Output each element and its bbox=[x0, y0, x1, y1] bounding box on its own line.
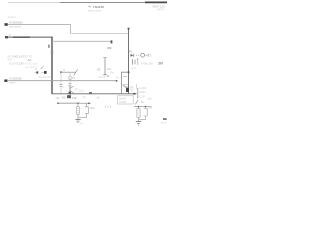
capacitor C9 bars on x70 bbox=[68, 84, 71, 86]
marks right of lamp bbox=[146, 54, 152, 57]
note text block left row3 bbox=[9, 61, 38, 65]
svg-text:b: b bbox=[63, 87, 65, 89]
svg-text:Rb: Rb bbox=[111, 72, 115, 75]
wire main horizontal y93.5 bbox=[52, 93, 136, 95]
connector arrow cluster A end bbox=[88, 102, 91, 104]
mark diagonal small bbox=[35, 68, 37, 70]
svg-text:+|: +| bbox=[97, 95, 100, 99]
svg-text:0.1R: 0.1R bbox=[140, 95, 145, 98]
connector arrow main line end bbox=[134, 93, 137, 95]
svg-text:gnd: gnd bbox=[132, 67, 137, 70]
wire net A horizontal y33.5 bbox=[71, 33, 129, 35]
svg-text:from panel: from panel bbox=[9, 26, 21, 29]
node dot B1 bbox=[138, 106, 140, 108]
svg-text:rev A: rev A bbox=[161, 121, 167, 124]
resistor R7 vertical x78 bbox=[77, 103, 80, 119]
wire pot wiper leg down bbox=[69, 72, 71, 86]
lamp M1 circle bbox=[141, 53, 145, 57]
ground GND1 bbox=[75, 119, 82, 125]
svg-text:10k: 10k bbox=[107, 67, 112, 71]
node dot net C end bbox=[116, 80, 118, 82]
capacitor C4 marks x122-128 bbox=[123, 76, 128, 86]
connector J4 top-right bus end bbox=[145, 1, 167, 3]
node dot under R5 bbox=[107, 76, 108, 77]
note text block left row2 bbox=[8, 58, 32, 63]
potentiometer R2 wiper arrow bbox=[74, 69, 78, 75]
mark diagonal near note bbox=[41, 66, 44, 69]
wire net B horizontal y37 bbox=[6, 36, 52, 38]
resistor R8 vertical x138.5 bbox=[137, 107, 140, 122]
svg-text:1N4148: 1N4148 bbox=[93, 5, 104, 9]
svg-text:ref: ref bbox=[8, 34, 11, 37]
svg-text:4x: 4x bbox=[88, 5, 92, 9]
svg-text:to ch2: to ch2 bbox=[140, 87, 147, 90]
node dot B2 bbox=[145, 106, 147, 108]
connector bar x137.5 bbox=[137, 88, 139, 99]
wire cluster B horizontal y106.5 bbox=[134, 106, 152, 108]
connector J2 arrow left bbox=[5, 36, 8, 38]
wire top power bus bbox=[8, 2, 167, 4]
svg-text:1k: 1k bbox=[83, 96, 86, 99]
svg-text:clip: clip bbox=[148, 98, 152, 101]
svg-text:sheet 1: sheet 1 bbox=[8, 15, 17, 19]
wire main vertical bus x52 bbox=[51, 37, 53, 94]
svg-text:ADJUST: ADJUST bbox=[15, 54, 26, 58]
meter M2 circle small bbox=[68, 76, 72, 80]
svg-text:hs: hs bbox=[141, 101, 144, 104]
label rows right of connector bbox=[140, 87, 147, 98]
ground GND2 bbox=[136, 122, 141, 125]
svg-text:+: + bbox=[137, 57, 139, 61]
svg-text:SET: SET bbox=[8, 58, 13, 62]
connector J3 arrow left bbox=[4, 80, 7, 82]
svg-text:4700u 25V: 4700u 25V bbox=[141, 63, 153, 66]
node dot A2 bbox=[77, 102, 79, 104]
svg-text:IN SENSE-: IN SENSE- bbox=[9, 77, 23, 81]
potentiometer R2 body wire bbox=[61, 71, 76, 73]
label T tick bbox=[48, 45, 49, 48]
svg-text:2k2: 2k2 bbox=[56, 97, 61, 100]
capacitor C6 vertical x86.5 bbox=[78, 103, 88, 117]
svg-text:1% mf: 1% mf bbox=[98, 76, 105, 79]
svg-text:Q2: Q2 bbox=[130, 89, 134, 92]
capacitor C7 vertical x145.5 bbox=[139, 107, 147, 120]
svg-text:supply: supply bbox=[157, 8, 165, 11]
svg-text:series drop: series drop bbox=[88, 8, 101, 12]
note text block left row1 bbox=[8, 54, 33, 58]
node tick on bus x52 bbox=[51, 52, 53, 54]
svg-text:10u: 10u bbox=[148, 107, 153, 110]
svg-text:D1 D2 sel: D1 D2 sel bbox=[39, 75, 51, 79]
node junction x128.5 y72 bbox=[128, 71, 130, 73]
svg-text:BD: BD bbox=[62, 95, 66, 99]
svg-text:3M: 3M bbox=[158, 61, 163, 65]
svg-text:TO220: TO220 bbox=[119, 101, 127, 104]
node junction Q1 emitter bbox=[69, 93, 71, 95]
transistor Q1 bbox=[69, 86, 74, 94]
svg-text:F1: F1 bbox=[129, 50, 133, 54]
mark diagonal right of box bbox=[135, 100, 138, 105]
svg-text:Q1: Q1 bbox=[75, 88, 79, 91]
svg-text:at 25C amb: at 25C amb bbox=[25, 62, 38, 65]
resistor R5 vertical x105 bbox=[103, 58, 107, 75]
capacitor C8 bars on x61 bbox=[59, 85, 62, 87]
wire net A corner down x70.5 bbox=[70, 25, 72, 34]
svg-text:return: return bbox=[9, 82, 16, 85]
svg-text:4: 4 bbox=[81, 122, 83, 125]
svg-text:IN SENSE+: IN SENSE+ bbox=[9, 21, 24, 25]
potentiometer R2 node dot bbox=[60, 71, 62, 73]
wire branch y41 bbox=[52, 40, 112, 42]
connector end hook y41 bbox=[111, 40, 113, 43]
wire net A horizontal y24.5 bbox=[8, 24, 71, 26]
svg-text:1 1 1: 1 1 1 bbox=[105, 105, 112, 109]
transistor Q2 bbox=[123, 84, 134, 92]
wire stub above connector bbox=[136, 84, 138, 89]
wire corner to x121.5 bbox=[122, 72, 129, 94]
svg-text:R2: R2 bbox=[72, 77, 76, 80]
svg-text:5k: 5k bbox=[63, 69, 66, 72]
box U1 outline bbox=[118, 96, 134, 104]
svg-text:100u: 100u bbox=[90, 107, 96, 110]
svg-text:13.8V: 13.8V bbox=[17, 61, 24, 65]
node cap top x128.5 bbox=[128, 28, 130, 30]
wire net C horizontal y80.5 bbox=[7, 80, 117, 82]
connector J1 arrow left bbox=[5, 23, 8, 26]
node dot A1 bbox=[57, 102, 59, 104]
label dash bottom right bbox=[163, 118, 167, 120]
svg-text:R5: R5 bbox=[97, 67, 101, 71]
label diode group 4x1N4148 bbox=[88, 5, 104, 13]
diode D5 row right of bus bbox=[130, 54, 139, 57]
svg-text:shunt: shunt bbox=[140, 91, 146, 94]
label top-right bus bbox=[152, 5, 165, 12]
svg-text:139: 139 bbox=[72, 96, 77, 100]
diode D1 tiny bbox=[35, 71, 39, 73]
svg-text:0.1u: 0.1u bbox=[79, 90, 84, 93]
label text under main line cluster bbox=[56, 95, 87, 100]
wire cluster A horizontal y103 bbox=[58, 102, 89, 104]
wire pot left leg down bbox=[60, 72, 62, 93]
svg-text:1k: 1k bbox=[116, 77, 119, 80]
capacitor C1 polarized bbox=[133, 57, 139, 65]
svg-text:see table 2: see table 2 bbox=[25, 66, 37, 69]
diode D2 tiny bbox=[42, 71, 47, 74]
wire vertical x128.5 bbox=[128, 28, 130, 94]
label small above main line x80-92 bbox=[79, 90, 92, 94]
svg-text:R9: R9 bbox=[108, 46, 112, 50]
wire net B dark segment bbox=[13, 36, 30, 38]
